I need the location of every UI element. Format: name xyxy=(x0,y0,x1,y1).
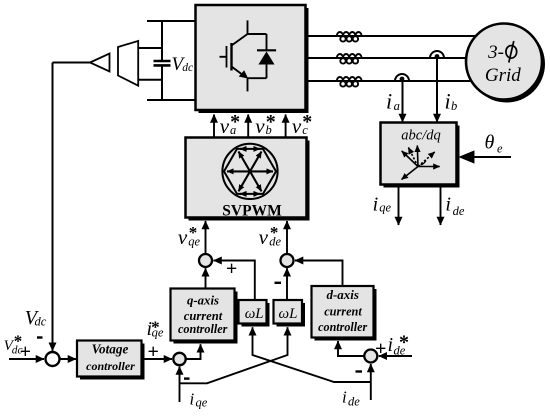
svg-text:qe: qe xyxy=(379,200,391,214)
svg-text:a: a xyxy=(394,99,400,113)
svg-text:+: + xyxy=(375,338,386,360)
svg-text:abc/dq: abc/dq xyxy=(401,128,440,144)
svg-text:v: v xyxy=(292,114,302,138)
svg-text:v: v xyxy=(255,114,265,138)
svg-text:*: * xyxy=(151,318,160,337)
svg-text:i: i xyxy=(386,89,392,114)
svg-text:*: * xyxy=(189,223,198,242)
svg-text:*: * xyxy=(399,332,409,354)
svg-text:v: v xyxy=(220,114,230,138)
svg-text:i: i xyxy=(342,388,347,407)
svg-text:v: v xyxy=(259,225,269,249)
svg-text:d-axis: d-axis xyxy=(326,287,359,302)
svg-text:i: i xyxy=(445,193,451,215)
svg-text:v: v xyxy=(178,225,188,249)
svg-text:dc: dc xyxy=(35,315,47,329)
svg-text:qe: qe xyxy=(196,396,208,410)
svg-text:controller: controller xyxy=(178,322,228,336)
svg-text:Votage: Votage xyxy=(92,342,129,357)
svg-text:controller: controller xyxy=(318,320,367,334)
svg-text:*: * xyxy=(266,111,276,133)
svg-text:q-axis: q-axis xyxy=(187,294,219,308)
svg-text:i: i xyxy=(445,89,451,114)
svg-text:3-: 3- xyxy=(487,42,504,63)
svg-text:current: current xyxy=(324,304,362,318)
svg-text:+: + xyxy=(226,258,237,280)
svg-text:+: + xyxy=(20,341,31,363)
svg-text:de: de xyxy=(348,395,360,409)
svg-text:Grid: Grid xyxy=(485,65,521,86)
svg-text:i: i xyxy=(388,334,394,356)
svg-text:SVPWM: SVPWM xyxy=(222,202,282,219)
svg-text:+: + xyxy=(148,341,159,363)
svg-text:i: i xyxy=(373,193,379,215)
svg-text:ωL: ωL xyxy=(279,306,298,322)
svg-text:dc: dc xyxy=(182,62,193,74)
svg-text:*: * xyxy=(302,111,312,133)
svg-text:b: b xyxy=(451,99,457,113)
svg-text:*: * xyxy=(230,111,240,133)
svg-text:*: * xyxy=(270,223,279,242)
svg-text:e: e xyxy=(497,141,503,155)
svg-text:current: current xyxy=(184,309,223,323)
svg-text:de: de xyxy=(453,204,465,218)
svg-text:θ: θ xyxy=(485,132,495,154)
svg-text:ωL: ωL xyxy=(245,306,264,322)
svg-text:i: i xyxy=(190,390,195,409)
svg-text:controller: controller xyxy=(86,359,135,373)
